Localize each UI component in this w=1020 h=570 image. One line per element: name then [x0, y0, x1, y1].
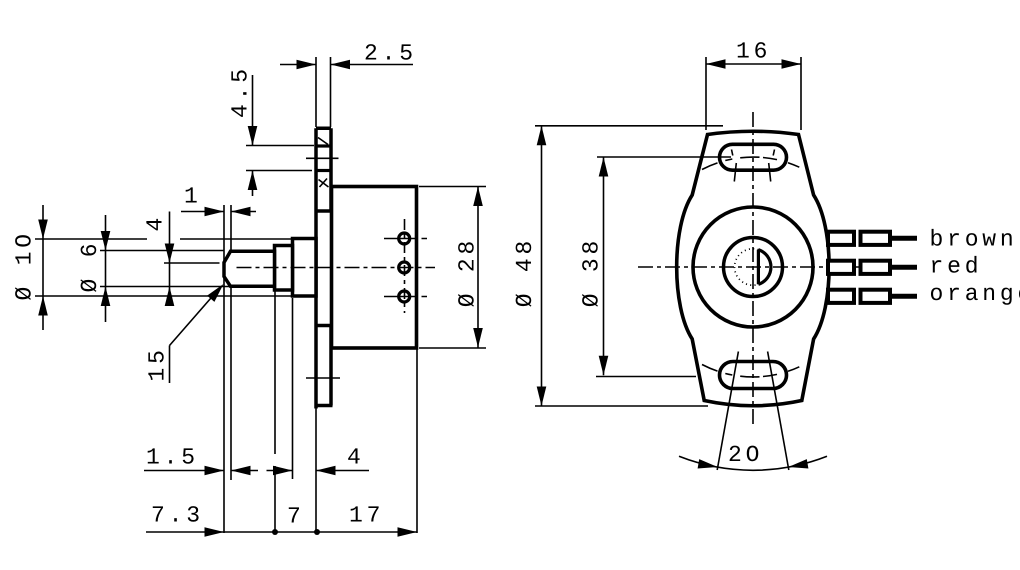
Ø10 extension lines: [35, 239, 292, 296]
arrows row 1.5/4: [205, 466, 225, 476]
svg-text:1: 1: [184, 184, 202, 210]
wire brown: [890, 236, 917, 241]
svg-text:4.5: 4.5: [228, 65, 254, 118]
bracket outline: [677, 131, 829, 406]
arrows Ø38: [599, 157, 609, 177]
flange top ear slot bottom edge: [316, 169, 331, 172]
terminal lug 2b: [861, 261, 891, 274]
shaft solid arc: [758, 250, 771, 285]
svg-text:Ø 1O: Ø 1O: [12, 230, 38, 300]
collar: [275, 246, 293, 291]
16 dimension line: [706, 63, 801, 65]
Ø38 dimension line: [603, 157, 605, 375]
terminals and wires (front view): [828, 232, 890, 303]
svg-text:4: 4: [143, 214, 169, 232]
arrows row 7.3/7/17: [205, 527, 225, 537]
leader line for 15: [170, 287, 222, 346]
svg-text:Ø 48: Ø 48: [512, 237, 538, 307]
top slot: [720, 144, 787, 170]
terminal pin 1 (side view): [399, 233, 410, 244]
body (side view, Ø28 housing): [332, 187, 417, 349]
flange top ear slot top edge: [316, 144, 331, 147]
svg-text:4: 4: [347, 445, 365, 471]
svg-text:Ø 6: Ø 6: [77, 240, 103, 293]
arrow 4.5 top: [248, 126, 258, 146]
Ø38 bolt circle arc top (dash-dot segments): [702, 157, 799, 169]
terminal lug 3a: [828, 290, 854, 303]
boss circle (Ø10): [724, 238, 783, 297]
arrow 2.5 right: [331, 60, 351, 70]
bottom slot: [720, 362, 787, 389]
arrowheads (side view): [38, 60, 483, 537]
thin lines (front view): [535, 57, 890, 470]
bottom dimension row 1 (1.5 / 4): [144, 470, 369, 472]
arrows 4 (vertical): [165, 244, 175, 264]
flange top ear: [316, 128, 333, 211]
Ø6 dimension line: [105, 215, 107, 322]
arrows Ø48: [537, 126, 547, 146]
flange bottom ear: [316, 326, 333, 406]
2.5 dimension line: [280, 64, 413, 66]
arrow 4.5 bottom: [248, 171, 258, 191]
svg-text:2.5: 2.5: [364, 41, 417, 67]
arrowhead leader 15: [207, 284, 223, 302]
shaft phantom dotted arc: [735, 249, 759, 285]
wire orange: [890, 294, 917, 299]
boss (Ø10 bushing): [293, 239, 317, 297]
svg-text:17: 17: [349, 503, 384, 529]
wedge line bottom-right: [768, 352, 789, 471]
terminal lug 2a: [828, 261, 854, 274]
16 extension lines: [706, 57, 801, 130]
arrow 20 left: [698, 459, 718, 468]
terminal lug 3b: [861, 290, 891, 303]
shaft flat chord: [757, 250, 760, 285]
svg-text:Ø 38: Ø 38: [579, 237, 605, 307]
Ø6 extension lines: [100, 251, 230, 287]
20 dimension arc: [679, 456, 827, 470]
svg-text:2O: 2O: [728, 442, 763, 468]
bottom dimension row 2 (7.3 / 7 / 17): [146, 531, 417, 533]
radial tick marks at top slot: [732, 150, 775, 182]
terminal pin 3 (side view): [399, 291, 410, 302]
hatch X in top ear lower compartment: [319, 179, 329, 188]
shaft D-profile (front view): [735, 249, 771, 285]
svg-text:7: 7: [287, 504, 305, 530]
svg-text:1.5: 1.5: [146, 445, 199, 471]
arrow 1 left: [205, 207, 225, 217]
4 dimension line (vertical, also leader stem for 15): [169, 212, 171, 384]
texts (front view): [512, 39, 1020, 469]
Ø48 dimension line: [541, 126, 543, 406]
svg-text:16: 16: [736, 39, 771, 65]
wire red: [890, 265, 917, 270]
terminal vertical centerline (dashed): [404, 219, 406, 313]
hatch in top ear upper compartment: [318, 138, 328, 145]
wedge line bottom-left: [717, 352, 738, 471]
terminal lug 1b: [861, 232, 891, 245]
texts (side view): [12, 41, 481, 530]
main centerline: [237, 267, 436, 269]
svg-text:orange: orange: [930, 281, 1020, 307]
arrow 2.5 left: [297, 60, 317, 70]
terminal horizontal centerlines: [384, 239, 427, 297]
Ø28 extension lines: [419, 187, 486, 349]
4.5 extension lines: [246, 146, 314, 171]
vertical centerline: [752, 112, 754, 425]
chain dots: [272, 529, 278, 535]
horizontal centerline: [638, 266, 890, 268]
svg-text:Ø 28: Ø 28: [455, 237, 481, 307]
arrow 20 right: [788, 459, 808, 468]
Ø28 dimension line: [477, 187, 479, 348]
1 dimension line: [181, 211, 256, 213]
Ø38 bolt circle arc bottom (dash-dot segments): [702, 365, 799, 377]
svg-text:7.3: 7.3: [151, 503, 204, 529]
Ø48 extension lines: [535, 126, 723, 406]
arrows 16: [706, 59, 726, 69]
Ø38 extension lines: [596, 157, 731, 377]
extension lines vertical (shaft tip chain): [223, 205, 225, 533]
svg-text:brown: brown: [930, 226, 1018, 252]
arrows Ø6: [101, 231, 111, 251]
flange front face line: [314, 128, 318, 408]
arrow 1 right: [231, 207, 251, 217]
shaft (Ø6, chamfered tip): [224, 251, 275, 286]
4 top reference line: [164, 262, 220, 264]
slot center tick (bottom ear): [306, 377, 340, 379]
arrowheads (front view): [537, 59, 809, 468]
svg-text:red: red: [930, 253, 983, 279]
svg-text:15: 15: [145, 346, 171, 381]
terminal lug 1a: [828, 232, 854, 245]
arrows Ø10: [38, 220, 48, 240]
thin lines: centerlines, extensions, dimensions (side view): [35, 57, 486, 533]
inner circle (body Ø20): [693, 207, 813, 327]
slot center tick (top ear): [306, 157, 339, 159]
2.5 extension lines: [316, 57, 331, 127]
arrows Ø28: [473, 187, 483, 207]
4.5 dimension line: [252, 75, 254, 196]
terminal pin 2 (side view): [399, 262, 410, 273]
Ø10 dimension line: [42, 205, 44, 330]
